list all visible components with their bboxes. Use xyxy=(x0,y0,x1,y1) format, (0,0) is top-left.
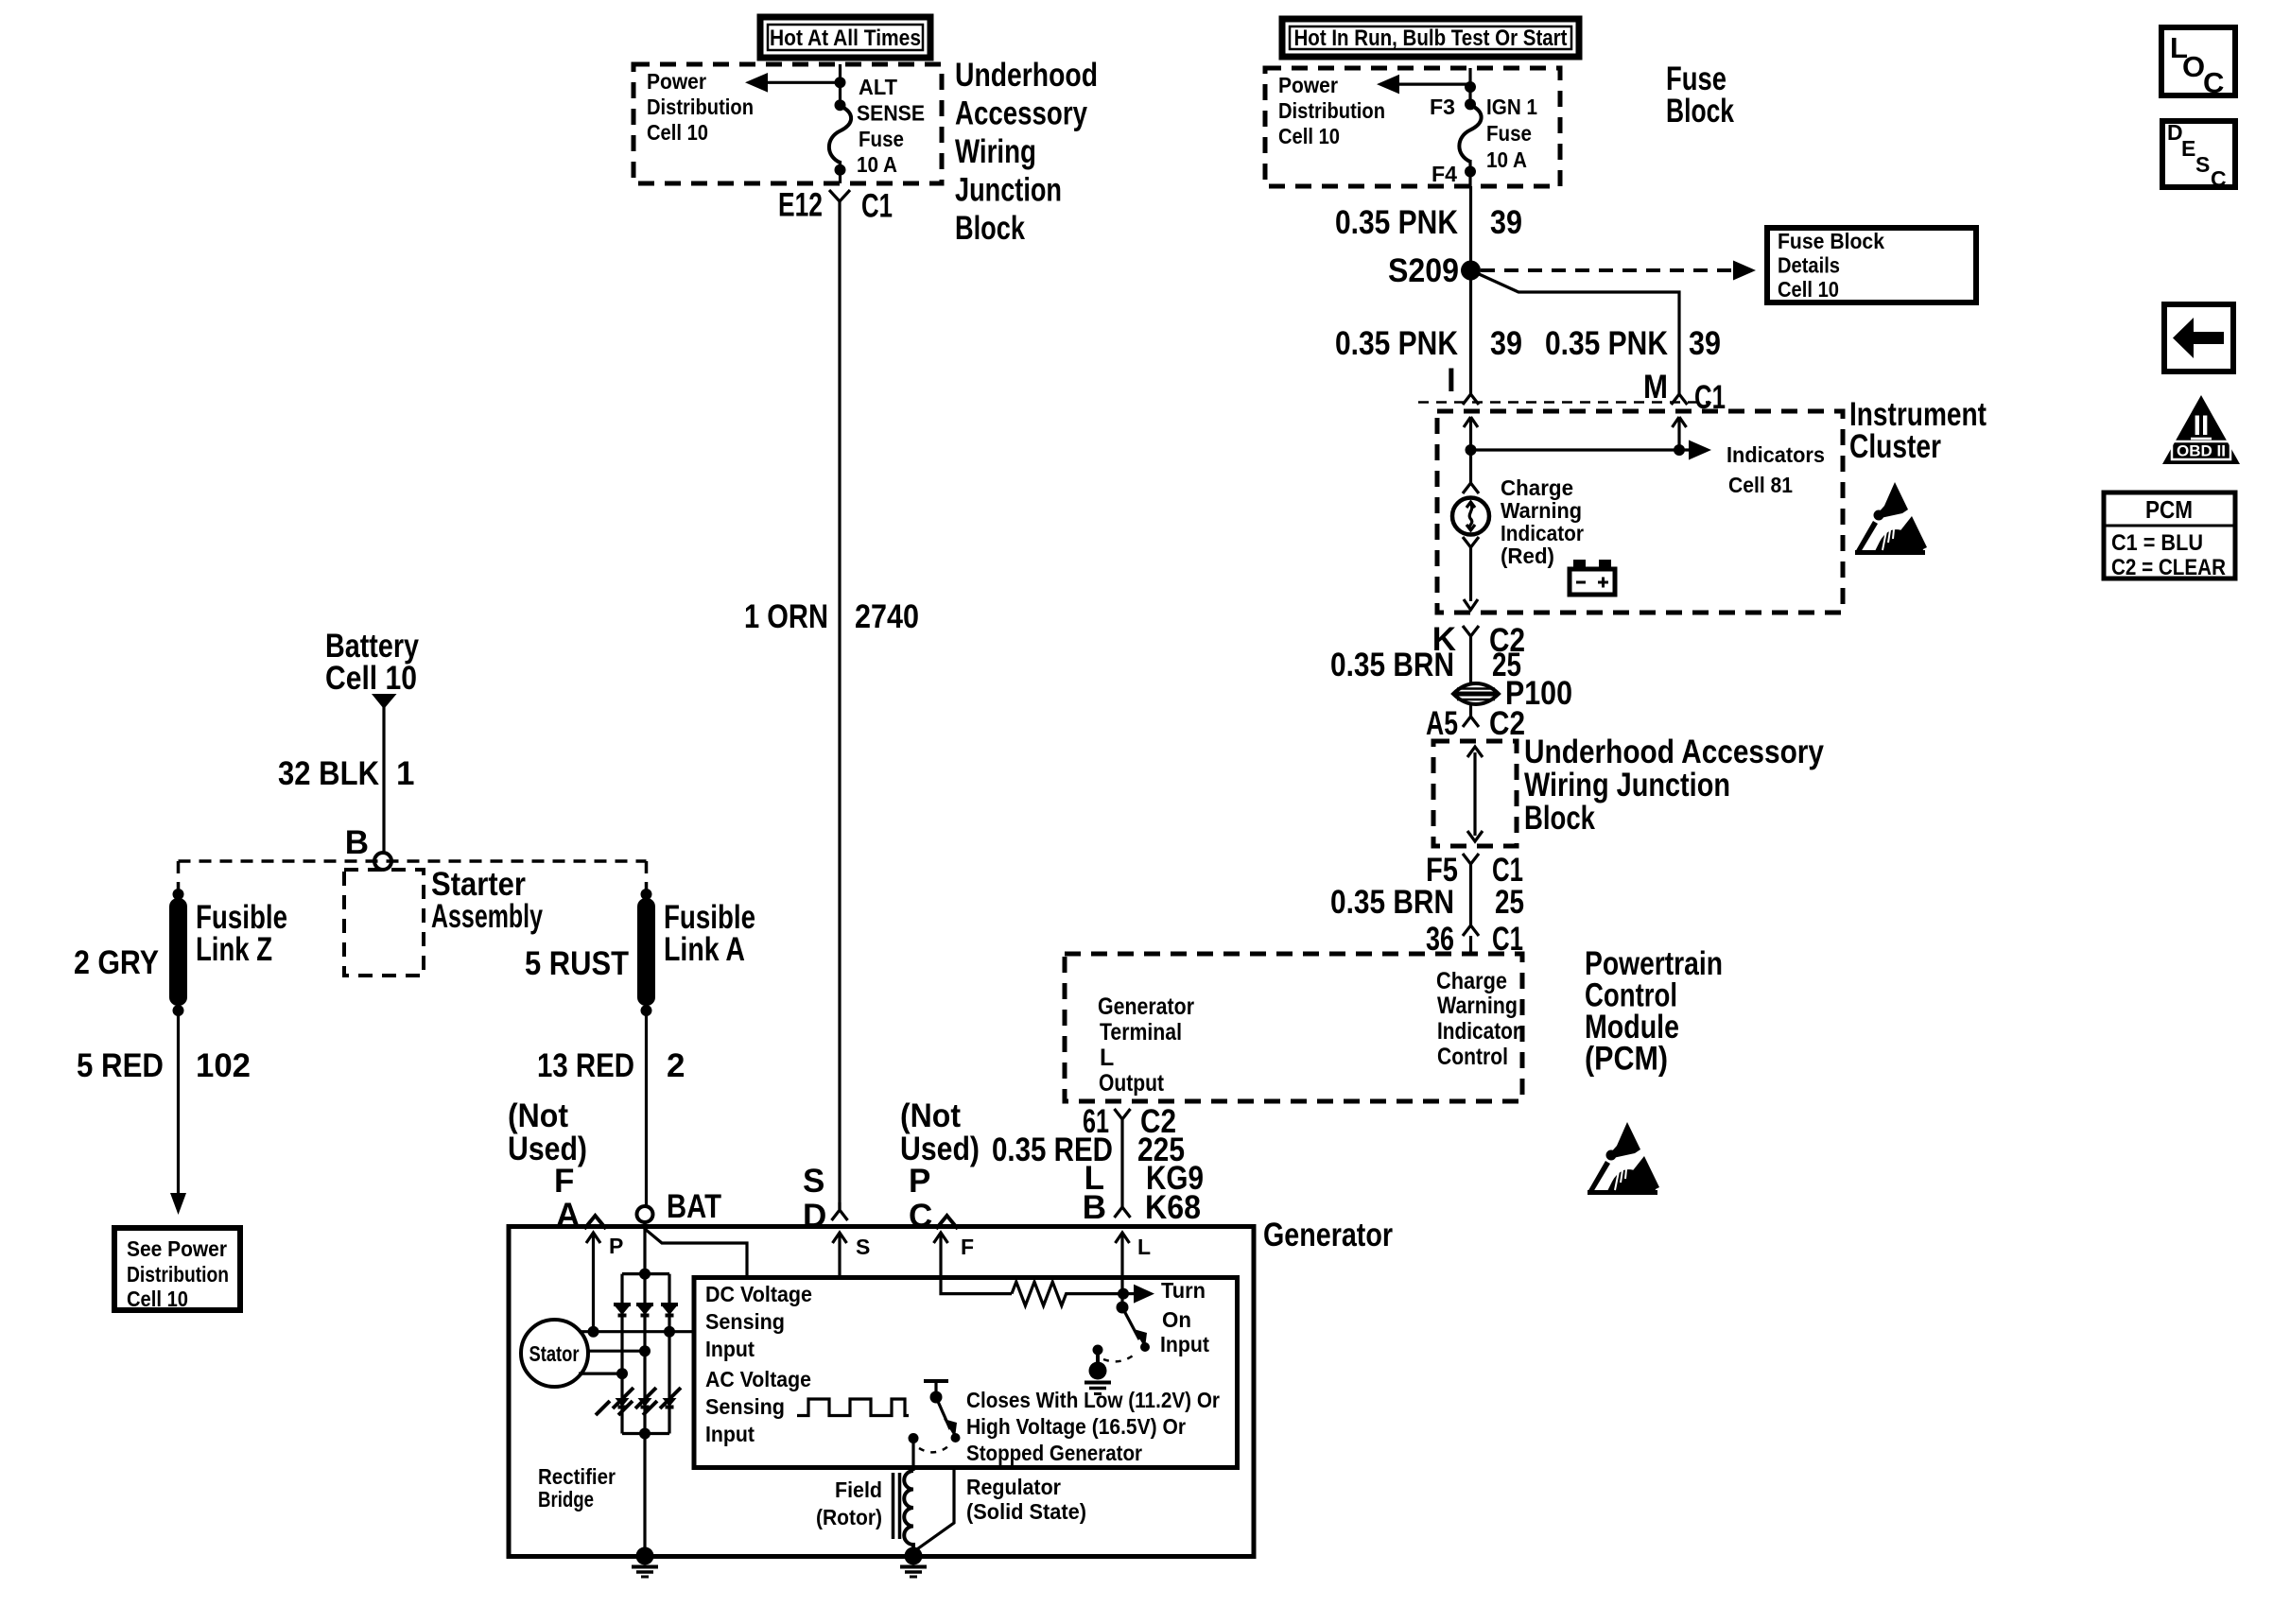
svg-text:0.35 BRN: 0.35 BRN xyxy=(1330,647,1454,683)
field rotor coil xyxy=(816,1471,913,1548)
junction block box: Underhood Accessory Wiring Junction Block (middle) xyxy=(1433,734,1824,846)
svg-text:Generator: Generator xyxy=(1263,1217,1393,1253)
connector B / K68 xyxy=(1115,1207,1131,1218)
regulator to field link xyxy=(914,1467,1086,1551)
svg-text:0.35 PNK: 0.35 PNK xyxy=(1335,204,1458,241)
svg-text:39: 39 xyxy=(1490,204,1522,241)
svg-text:Link A: Link A xyxy=(664,931,745,968)
generator box xyxy=(509,1217,1393,1557)
svg-text:F3: F3 xyxy=(1430,95,1455,119)
svg-text:S: S xyxy=(803,1163,824,1200)
connector M / C1 xyxy=(1643,369,1726,416)
rectifier bridge xyxy=(538,1222,669,1556)
svg-text:Sensing: Sensing xyxy=(705,1394,785,1419)
wire: BAT to regulator xyxy=(645,1222,747,1277)
svg-text:C: C xyxy=(909,1198,932,1235)
svg-text:Underhood: Underhood xyxy=(955,57,1098,94)
wire: feed arrow to Power Distribution (left arrow) xyxy=(745,73,846,93)
dashed branch line through node B xyxy=(179,859,647,863)
svg-text:Block: Block xyxy=(1524,800,1595,837)
svg-text:AC Voltage: AC Voltage xyxy=(705,1367,811,1391)
svg-text:Cell 10: Cell 10 xyxy=(325,660,417,697)
reference box: Fuse Block Details Cell 10 xyxy=(1767,228,1976,302)
svg-text:On: On xyxy=(1162,1307,1191,1332)
svg-text:39: 39 xyxy=(1490,325,1522,362)
svg-text:A5: A5 xyxy=(1426,705,1458,742)
fusible link Z xyxy=(74,861,287,1016)
svg-text:Block: Block xyxy=(1666,93,1734,130)
power tag: Hot In Run, Bulb Test Or Start xyxy=(1282,19,1579,57)
dashed reference arrow to Fuse Block Details xyxy=(1481,261,1756,281)
svg-text:OBD II: OBD II xyxy=(2177,442,2226,460)
svg-text:B: B xyxy=(1083,1189,1106,1226)
instrument cluster box xyxy=(1437,396,1987,613)
ground (field) xyxy=(900,1547,927,1578)
wire: 0.35 RED 225 KG9 K68 xyxy=(992,1132,1204,1226)
internal arrow L + switch pivot xyxy=(1116,1233,1152,1352)
connector K / C2 xyxy=(1432,621,1525,684)
svg-text:SENSE: SENSE xyxy=(857,101,925,126)
internal arrow F with resistor xyxy=(934,1233,1124,1305)
svg-text:Distribution: Distribution xyxy=(1278,98,1385,123)
icon: back arrow box xyxy=(2164,304,2233,371)
svg-text:Charge: Charge xyxy=(1501,475,1573,500)
svg-text:Junction: Junction xyxy=(955,172,1062,209)
wire: 0.35 PNK 39 (left branch to I) xyxy=(1335,270,1522,394)
svg-text:Cluster: Cluster xyxy=(1849,428,1941,465)
svg-text:Stopped Generator: Stopped Generator xyxy=(966,1441,1142,1465)
svg-text:S: S xyxy=(2195,152,2210,177)
wire: 0.35 BRN 25 (lower) xyxy=(1330,884,1524,921)
svg-text:(Solid State): (Solid State) xyxy=(966,1499,1086,1524)
svg-text:Assembly: Assembly xyxy=(431,898,543,935)
icon: DESC box xyxy=(2162,120,2235,191)
svg-text:0.35 BRN: 0.35 BRN xyxy=(1330,884,1454,921)
svg-text:Details: Details xyxy=(1778,253,1840,278)
wire: M feed into cluster xyxy=(1673,417,1687,456)
powertrain control module box xyxy=(1065,945,1723,1101)
wire: I feed into cluster xyxy=(1464,417,1478,456)
svg-text:5 RUST: 5 RUST xyxy=(525,945,629,982)
svg-text:Turn: Turn xyxy=(1161,1278,1206,1303)
svg-text:Generator: Generator xyxy=(1098,993,1194,1020)
unused terminal F/A xyxy=(508,1097,606,1234)
svg-text:Cell 10: Cell 10 xyxy=(1778,277,1839,302)
svg-text:Distribution: Distribution xyxy=(647,95,754,119)
svg-text:Stator: Stator xyxy=(529,1341,580,1366)
starter assembly box xyxy=(344,866,543,976)
svg-text:Sensing: Sensing xyxy=(705,1309,785,1334)
svg-text:IGN 1: IGN 1 xyxy=(1486,95,1537,119)
svg-text:Input: Input xyxy=(1160,1332,1209,1356)
svg-text:C2 = CLEAR: C2 = CLEAR xyxy=(2111,555,2226,580)
connector line C1 (light dashed) xyxy=(1418,401,1709,404)
internal arrow P xyxy=(586,1233,623,1332)
svg-text:E: E xyxy=(2181,136,2195,161)
svg-text:Warning: Warning xyxy=(1437,993,1518,1019)
svg-text:32 BLK: 32 BLK xyxy=(278,755,379,792)
svg-text:L: L xyxy=(1100,1045,1114,1071)
svg-text:F4: F4 xyxy=(1431,162,1457,186)
svg-text:Regulator: Regulator xyxy=(966,1475,1061,1499)
terminal S/D connector xyxy=(803,1163,848,1235)
svg-text:Rectifier: Rectifier xyxy=(538,1464,616,1489)
svg-text:Distribution: Distribution xyxy=(127,1262,229,1287)
wire: feed arrow to Power Distribution (fuse block) xyxy=(1377,75,1476,95)
connector A5 / C2 xyxy=(1426,705,1525,742)
connector F5 / C1 xyxy=(1426,852,1523,925)
svg-text:ALT: ALT xyxy=(859,75,897,99)
svg-text:F: F xyxy=(554,1163,574,1200)
svg-text:I: I xyxy=(1447,362,1456,399)
svg-text:13 RED: 13 RED xyxy=(537,1047,634,1084)
svg-text:Fuse: Fuse xyxy=(1486,121,1532,146)
svg-text:Wiring: Wiring xyxy=(955,133,1036,170)
svg-text:Warning: Warning xyxy=(1501,498,1582,523)
svg-text:D: D xyxy=(803,1198,826,1235)
svg-text:5 RED: 5 RED xyxy=(77,1047,164,1084)
svg-text:2: 2 xyxy=(667,1047,685,1084)
svg-text:Field: Field xyxy=(835,1477,882,1502)
svg-text:(Red): (Red) xyxy=(1501,544,1554,568)
fuse: IGN 1 Fuse 10 A (F3/F4) xyxy=(1430,68,1537,186)
charge warning indicator lamp xyxy=(1452,450,1584,610)
svg-text:Fuse: Fuse xyxy=(859,127,904,151)
svg-text:C1: C1 xyxy=(861,188,893,225)
svg-text:S209: S209 xyxy=(1388,252,1459,289)
wire: 32 BLK 1 xyxy=(278,755,414,792)
svg-text:DC Voltage: DC Voltage xyxy=(705,1282,812,1306)
svg-text:2 GRY: 2 GRY xyxy=(74,944,159,981)
svg-text:Cell 81: Cell 81 xyxy=(1728,473,1793,497)
svg-text:M: M xyxy=(1643,369,1668,406)
ESD symbol (instrument cluster) xyxy=(1855,482,1927,555)
svg-text:Fuse Block: Fuse Block xyxy=(1778,229,1884,253)
svg-text:Cell 10: Cell 10 xyxy=(127,1287,188,1311)
wire: indicators feed xyxy=(1471,441,1826,498)
fusible link A xyxy=(525,861,755,1016)
svg-text:F: F xyxy=(961,1235,974,1259)
svg-text:0.35 PNK: 0.35 PNK xyxy=(1335,325,1458,362)
svg-text:Power: Power xyxy=(1278,73,1338,97)
svg-text:E12: E12 xyxy=(778,187,823,224)
svg-text:Power: Power xyxy=(647,69,706,94)
svg-text:Hot In Run, Bulb Test Or Start: Hot In Run, Bulb Test Or Start xyxy=(1294,26,1568,51)
svg-text:O: O xyxy=(2182,50,2205,83)
ESD symbol (PCM) xyxy=(1588,1122,1659,1195)
splice S209 xyxy=(1388,252,1481,289)
svg-text:Input: Input xyxy=(705,1337,755,1361)
svg-text:Cell 10: Cell 10 xyxy=(647,120,708,145)
svg-text:P: P xyxy=(609,1234,623,1258)
svg-text:Cell 10: Cell 10 xyxy=(1278,124,1340,148)
svg-text:BAT: BAT xyxy=(667,1188,721,1225)
connector 36 / C1 xyxy=(1426,921,1523,958)
svg-text:1: 1 xyxy=(396,755,414,792)
svg-text:Bridge: Bridge xyxy=(538,1487,594,1512)
wire: 0.35 PNK 39 (upper) xyxy=(1335,186,1522,270)
wire: 1 ORN 2740 xyxy=(744,201,919,1209)
svg-text:39: 39 xyxy=(1689,325,1721,362)
svg-text:Used): Used) xyxy=(508,1131,587,1167)
fuse block box (dashed) xyxy=(1265,60,1734,186)
svg-text:Control: Control xyxy=(1437,1044,1508,1070)
stator xyxy=(521,1320,694,1387)
svg-text:(Rotor): (Rotor) xyxy=(816,1505,882,1529)
svg-text:Hot At All Times: Hot At All Times xyxy=(770,26,921,51)
svg-text:C1 = BLU: C1 = BLU xyxy=(2111,530,2203,556)
svg-text:(PCM): (PCM) xyxy=(1585,1041,1668,1078)
icon: OBD II triangle xyxy=(2162,395,2240,464)
square wave symbol xyxy=(797,1399,909,1416)
svg-text:10 A: 10 A xyxy=(857,152,897,177)
svg-text:Charge: Charge xyxy=(1436,968,1507,994)
wire: 0.35 BRN 25 (upper) xyxy=(1330,647,1521,683)
reference box: See Power Distribution Cell 10 xyxy=(114,1228,240,1311)
svg-text:(Not: (Not xyxy=(900,1097,961,1134)
turn on input arrow xyxy=(1118,1278,1209,1356)
node B xyxy=(345,824,391,870)
terminal C unused / P xyxy=(900,1097,980,1235)
terminal BAT xyxy=(637,1188,722,1225)
svg-text:Underhood Accessory: Underhood Accessory xyxy=(1524,734,1824,770)
svg-text:PCM: PCM xyxy=(2145,495,2193,524)
svg-text:Indicator: Indicator xyxy=(1501,521,1584,545)
svg-text:C: C xyxy=(2211,166,2227,191)
svg-text:1 ORN: 1 ORN xyxy=(744,598,828,635)
svg-text:2740: 2740 xyxy=(855,598,919,635)
junction block box: Underhood Accessory Wiring Junction Block (top) xyxy=(633,57,1098,247)
svg-text:Output: Output xyxy=(1099,1070,1165,1097)
battery feed label: Battery Cell 10 xyxy=(325,628,419,853)
svg-text:II: II xyxy=(2194,410,2210,441)
svg-text:0.35 PNK: 0.35 PNK xyxy=(1545,325,1668,362)
internal arrow S xyxy=(833,1233,871,1277)
svg-text:High Voltage (16.5V) Or: High Voltage (16.5V) Or xyxy=(966,1414,1186,1439)
svg-text:Wiring Junction: Wiring Junction xyxy=(1524,767,1730,803)
battery icon xyxy=(1570,560,1615,595)
svg-text:Input: Input xyxy=(705,1422,755,1446)
svg-text:See Power: See Power xyxy=(127,1236,227,1261)
regulator box xyxy=(694,1278,1238,1468)
svg-text:25: 25 xyxy=(1495,884,1524,921)
wire: 0.35 PNK 39 (right branch to M) xyxy=(1471,270,1722,394)
ground (rectifier) xyxy=(632,1547,658,1578)
svg-text:C2: C2 xyxy=(1489,705,1525,742)
turn on switch contact post + ground xyxy=(1084,1345,1136,1394)
svg-text:Closes With Low (11.2V) Or: Closes With Low (11.2V) Or xyxy=(966,1388,1220,1412)
svg-text:K68: K68 xyxy=(1145,1189,1201,1226)
grommet P100 xyxy=(1453,675,1572,712)
svg-text:B: B xyxy=(345,824,369,861)
fuse: ALT SENSE Fuse 10 A xyxy=(829,64,925,183)
rectifier zener diodes (lower row) xyxy=(596,1388,681,1415)
svg-text:Indicator: Indicator xyxy=(1437,1018,1520,1045)
svg-text:S: S xyxy=(856,1235,870,1259)
regulator switch (closes with low/high voltage) xyxy=(909,1381,1221,1471)
svg-text:Accessory: Accessory xyxy=(955,95,1087,132)
svg-text:Indicators: Indicators xyxy=(1726,442,1825,467)
connector 61 / C2 xyxy=(1083,1103,1176,1207)
svg-text:102: 102 xyxy=(196,1047,251,1084)
wire: 13 RED 2 xyxy=(537,1011,685,1205)
svg-text:(Not: (Not xyxy=(508,1097,568,1134)
svg-text:Terminal: Terminal xyxy=(1100,1019,1182,1045)
connector E12 / C1 xyxy=(778,187,893,225)
svg-text:Block: Block xyxy=(955,210,1025,247)
wire: 5 RED 102 xyxy=(77,1011,251,1215)
icon: LOC box xyxy=(2161,27,2235,99)
svg-text:10 A: 10 A xyxy=(1486,147,1527,172)
svg-text:Link Z: Link Z xyxy=(196,931,272,968)
rectifier diodes (upper row) xyxy=(614,1304,678,1316)
power tag: Hot At All Times xyxy=(760,17,930,58)
svg-text:L: L xyxy=(1137,1235,1151,1259)
svg-text:P: P xyxy=(909,1163,930,1200)
connector I (C1) xyxy=(1447,362,1479,405)
svg-text:C: C xyxy=(2203,66,2224,99)
legend: PCM connectors xyxy=(2104,492,2235,580)
